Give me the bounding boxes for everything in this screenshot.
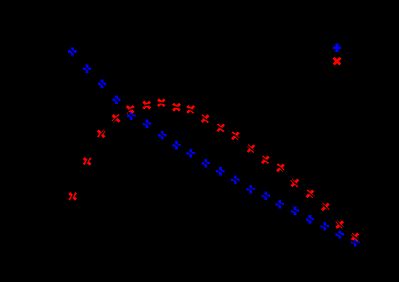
blue plus marker point 13 — [246, 185, 254, 193]
blue plus marker point 15 — [276, 200, 284, 208]
legend blue plus marker — [333, 44, 341, 52]
red x marker point 11 — [217, 124, 224, 131]
black fit line over red series — [60, 103, 368, 248]
red marker series — [69, 99, 358, 240]
blue plus marker point 10 — [202, 159, 210, 167]
blue plus marker point 2 — [83, 65, 91, 73]
red x marker point 17 — [307, 191, 314, 198]
blue plus marker point 9 — [187, 149, 195, 157]
red x marker point 16 — [291, 180, 298, 187]
blue plus marker point 17 — [306, 215, 314, 223]
blue plus marker point 6 — [143, 120, 151, 128]
blue plus marker point 18 — [321, 222, 329, 230]
red x marker point 8 — [173, 104, 180, 111]
red x marker point 20 — [352, 234, 359, 241]
red x marker point 3 — [98, 131, 105, 138]
blue plus marker point 12 — [231, 175, 239, 183]
blue plus marker point 7 — [158, 131, 166, 139]
red x marker point 13 — [248, 145, 255, 152]
red x marker point 7 — [158, 99, 165, 106]
red x marker point 4 — [113, 115, 120, 122]
blue plus marker point 5 — [127, 112, 135, 120]
red x marker point 6 — [143, 102, 150, 109]
blue plus marker point 8 — [172, 141, 180, 149]
red x marker point 1 — [69, 193, 76, 200]
blue plus marker point 4 — [112, 96, 120, 104]
blue plus marker point 20 — [351, 238, 359, 246]
black fit line over blue series — [59, 36, 368, 249]
red x marker point 2 — [84, 158, 91, 165]
red x marker point 15 — [277, 164, 284, 171]
blue plus marker point 19 — [335, 230, 343, 238]
red x marker point 18 — [322, 203, 329, 210]
blue plus marker point 14 — [262, 192, 270, 200]
blue plus marker point 3 — [98, 80, 106, 88]
legend red x marker — [334, 58, 341, 65]
blue plus marker point 16 — [291, 207, 299, 215]
red x marker point 14 — [262, 156, 269, 163]
red x marker point 19 — [336, 221, 343, 228]
red x marker point 9 — [187, 106, 194, 113]
red x marker point 5 — [127, 106, 134, 113]
blue marker series — [68, 47, 359, 246]
red x marker point 10 — [202, 115, 209, 122]
blue plus marker point 11 — [216, 167, 224, 175]
red x marker point 12 — [232, 132, 239, 139]
blue plus marker point 1 — [68, 47, 76, 55]
